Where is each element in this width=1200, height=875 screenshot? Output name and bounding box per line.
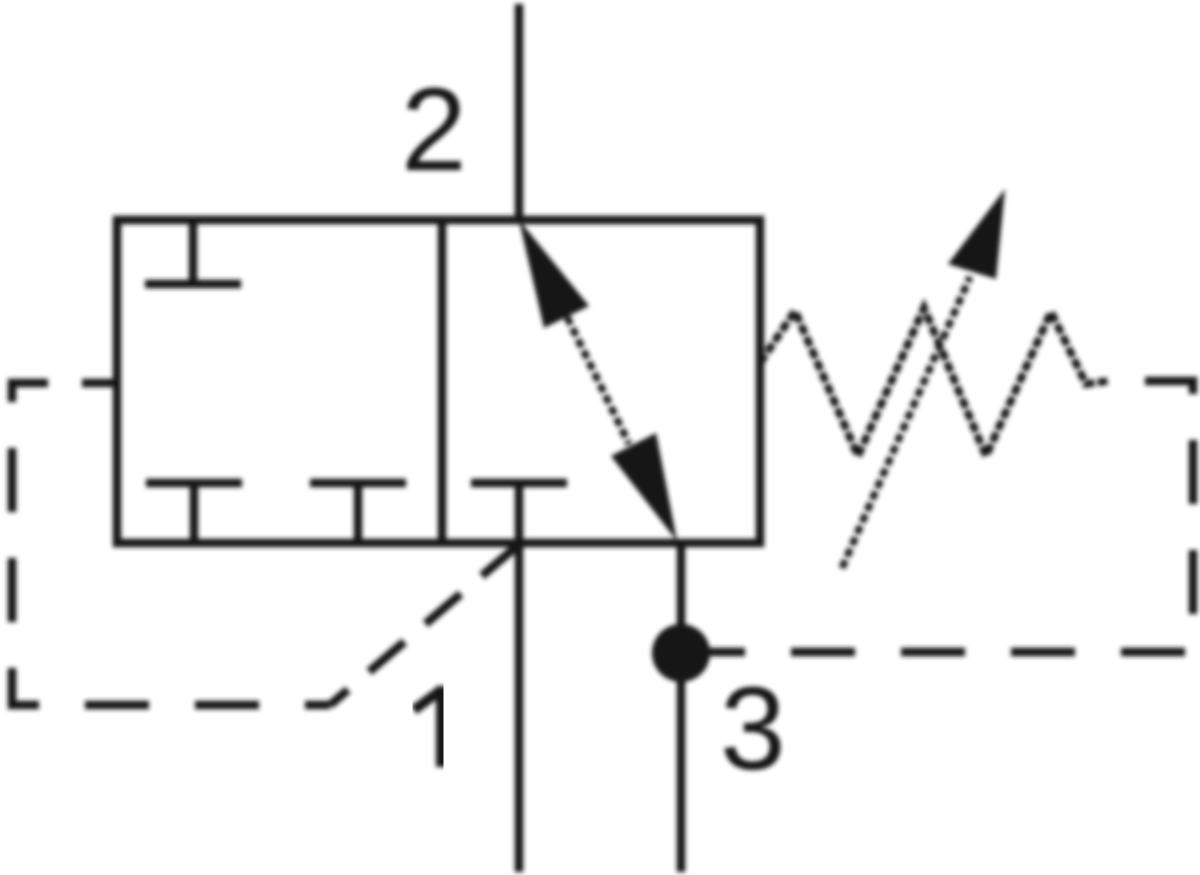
drain line right (dashed: from spring to node 3): [681, 381, 1193, 652]
flow path arrow shaft (dotted, right square): [567, 317, 629, 444]
closed-port T symbol top-left: [145, 220, 241, 284]
label port 1: [414, 686, 442, 767]
closed-port T symbol bottom-center: [471, 483, 567, 543]
pilot line left: bracket (dashed): [12, 383, 330, 705]
valve body envelope (two-position box): [117, 220, 760, 543]
pilot line left: diagonal to port 1 (dashed): [330, 546, 517, 705]
spring: [760, 308, 1108, 456]
port 1 line (bottom): [515, 543, 524, 872]
port 3 line (bottom right): [677, 543, 686, 872]
svg-text:2: 2: [401, 64, 467, 196]
closed-port T symbol bottom-left 1: [146, 483, 242, 543]
flow path arrowhead up (to port 2): [519, 220, 589, 328]
port 2 line (top): [515, 4, 524, 220]
flow path arrowhead down (to port 3): [611, 433, 677, 541]
junction node 3 dot: [652, 624, 710, 682]
pilot line left: tick into box (dashed): [82, 379, 117, 388]
svg-text:3: 3: [720, 663, 786, 795]
adjustment arrow shaft (dotted diagonal): [842, 277, 970, 568]
adjustment arrowhead: [948, 189, 1005, 279]
closed-port T symbol bottom-left 2: [310, 483, 406, 543]
position divider line: [438, 220, 447, 543]
